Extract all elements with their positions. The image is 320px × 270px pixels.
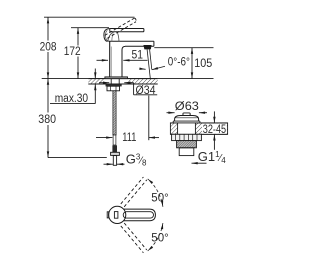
extension line top (208, open lever) xyxy=(44,16,135,18)
rotation arc lower xyxy=(148,223,163,251)
shank washer below deck xyxy=(111,79,119,84)
svg-text:380: 380 xyxy=(38,114,56,126)
faucet body column xyxy=(110,41,126,76)
dim 51 (body width) xyxy=(97,59,148,61)
pivot slot xyxy=(114,212,118,219)
spout slab xyxy=(108,41,154,46)
drain tailpipe xyxy=(179,148,194,156)
svg-text:max.30: max.30 xyxy=(55,93,88,105)
extension line hose end (380) xyxy=(48,157,107,159)
svg-text:0°-6°: 0°-6° xyxy=(168,57,190,69)
deck top extension line xyxy=(42,78,214,80)
drain flange xyxy=(173,121,200,123)
drain body through hole xyxy=(178,123,196,134)
dim 380 xyxy=(47,79,49,158)
svg-text:111: 111 xyxy=(122,132,136,144)
svg-text:G3⁄8: G3⁄8 xyxy=(126,151,147,167)
dashed handle rotated up xyxy=(121,177,147,207)
extension line (172, closed lever) xyxy=(71,27,109,29)
hose connector flange xyxy=(111,152,120,155)
faucet base plate xyxy=(105,77,128,79)
pivot left bump xyxy=(107,212,109,218)
threaded mounting rod xyxy=(113,91,116,135)
dim Ø63 xyxy=(167,112,208,114)
dim max.30 xyxy=(50,69,95,104)
svg-text:Ø34: Ø34 xyxy=(136,85,157,97)
dim 111 xyxy=(96,96,159,141)
lever handle open position (dashed) xyxy=(105,18,136,38)
dim 105 xyxy=(154,47,213,49)
handle inner lever xyxy=(123,212,153,218)
rotation arc upper xyxy=(148,179,163,207)
hose tube end G3/8 xyxy=(113,156,116,166)
aerator (mousseur) xyxy=(143,45,151,49)
popup cap xyxy=(175,116,199,122)
dim Ø34 hole xyxy=(99,83,157,95)
mounting nut xyxy=(107,86,120,91)
basin hatched section xyxy=(170,122,227,134)
leader G1 1/4 xyxy=(192,162,207,164)
drain threaded section xyxy=(177,141,197,148)
svg-text:50°: 50° xyxy=(151,192,168,204)
svg-text:Ø63: Ø63 xyxy=(175,101,199,113)
handle pivot circle xyxy=(109,206,126,223)
svg-text:172: 172 xyxy=(64,46,81,58)
handle outer bar xyxy=(124,209,156,221)
svg-text:50°: 50° xyxy=(151,232,168,244)
svg-text:105: 105 xyxy=(194,58,212,70)
dim G3/8 xyxy=(104,163,125,165)
deck hatched section xyxy=(88,79,157,84)
svg-text:G11⁄4: G11⁄4 xyxy=(198,149,226,165)
lever handle (closed) xyxy=(104,29,144,42)
dashed handle rotated down xyxy=(121,223,147,253)
svg-text:208: 208 xyxy=(40,41,57,53)
svg-text:51: 51 xyxy=(132,50,144,62)
dim 208 xyxy=(47,17,49,78)
dim 172 xyxy=(77,28,79,79)
svg-text:32-45: 32-45 xyxy=(203,124,226,136)
popup cap knob xyxy=(183,113,190,116)
dim 32-45 xyxy=(213,111,215,149)
water stream xyxy=(147,49,152,78)
hose connector stub xyxy=(112,145,117,152)
stream angle arrows xyxy=(140,66,166,70)
drain locknut xyxy=(172,134,202,140)
